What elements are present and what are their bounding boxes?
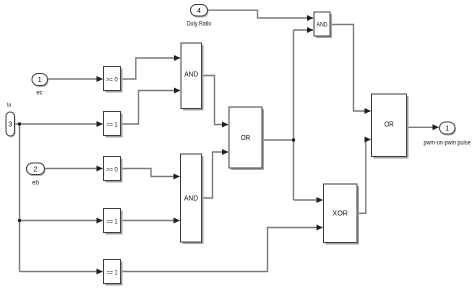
- node junction on Ia bus at eb row: [18, 219, 21, 222]
- svg-text:OR: OR: [384, 122, 394, 129]
- relational operator >= 0 (eb): [104, 157, 123, 183]
- wire AND2 out to OR1 in2: [202, 152, 229, 198]
- wire P2 eb to >=0 #2: [45, 168, 103, 170]
- svg-text:== 1: == 1: [107, 271, 119, 277]
- svg-text:Duty Ratio: Duty Ratio: [187, 22, 212, 28]
- wire >=0 out to AND1 in1: [121, 58, 181, 79]
- wire bus to ==1 #2: [20, 220, 103, 222]
- svg-text:3: 3: [8, 122, 12, 129]
- logical operator AND U1 (top left): [181, 43, 204, 111]
- svg-text:AND: AND: [184, 72, 198, 79]
- svg-text:1: 1: [445, 126, 449, 133]
- svg-text:2: 2: [34, 166, 38, 173]
- svg-text:== 1: == 1: [107, 123, 119, 129]
- logical operator OR U5 (right): [372, 94, 409, 159]
- svg-text:AND: AND: [317, 23, 329, 29]
- inport 4 Duty Ratio: [187, 5, 212, 28]
- svg-text:== 1: == 1: [107, 220, 119, 226]
- wire OR1 out to junction: [262, 139, 294, 141]
- wire ==1 #1 out to AND1 in2: [121, 91, 181, 125]
- relational operator == 1 (first): [104, 112, 123, 138]
- logical operator AND U2 (lower left): [181, 154, 204, 244]
- wire junction vertical bus: [293, 30, 295, 200]
- wire P4 Duty Ratio to AND3 in1: [208, 10, 314, 18]
- wire AND1 out to OR1 in1: [202, 76, 229, 125]
- wire P1 ec to relational >=0: [48, 78, 103, 80]
- wire >=0 #2 out to AND2 in1: [121, 169, 180, 177]
- wire P3 Ia to ==1 #1: [15, 123, 103, 125]
- logical operator AND U3 (top right small): [314, 12, 332, 38]
- inport 3 Ia (vertical): [6, 102, 16, 137]
- relational operator == 1 (second): [104, 209, 123, 235]
- inport 1 ec: [32, 74, 49, 97]
- svg-text:pwm-on-pwm pulse: pwm-on-pwm pulse: [424, 141, 472, 147]
- node junction on Ia wire: [18, 122, 21, 125]
- wire bus bottom to XOR in1: [294, 199, 323, 201]
- svg-text:AND: AND: [184, 196, 198, 203]
- svg-text:>= 0: >= 0: [106, 168, 118, 174]
- inport 2 eb: [27, 163, 46, 187]
- svg-text:OR: OR: [241, 135, 251, 142]
- svg-text:1: 1: [38, 77, 42, 84]
- wire ==1 #2 out to AND2 in2: [121, 220, 180, 222]
- wire vertical bus from Ia: [19, 124, 21, 272]
- wire ==1 #3 out to XOR in2: [121, 228, 323, 272]
- logical operator OR U4 (middle): [229, 107, 264, 170]
- wire bus to ==1 #3: [20, 271, 103, 273]
- relational operator == 1 (third): [104, 260, 123, 286]
- svg-text:4: 4: [197, 8, 201, 15]
- svg-text:>= 0: >= 0: [106, 78, 118, 84]
- wire XOR out to OR2 in2: [357, 140, 371, 214]
- svg-text:XOR: XOR: [332, 211, 348, 218]
- svg-text:eb: eb: [32, 181, 39, 187]
- wire bus top to AND3 in2: [294, 29, 314, 31]
- logical operator XOR U6: [324, 184, 360, 245]
- relational operator >= 0 (ec): [104, 67, 123, 93]
- svg-text:ec: ec: [36, 91, 42, 97]
- outport 1 pwm-on-pwm pulse: [424, 122, 472, 147]
- wire OR2 out to outport: [407, 126, 439, 128]
- node junction OR1 output: [292, 138, 295, 141]
- wire AND3 out to OR2 in1: [330, 25, 371, 112]
